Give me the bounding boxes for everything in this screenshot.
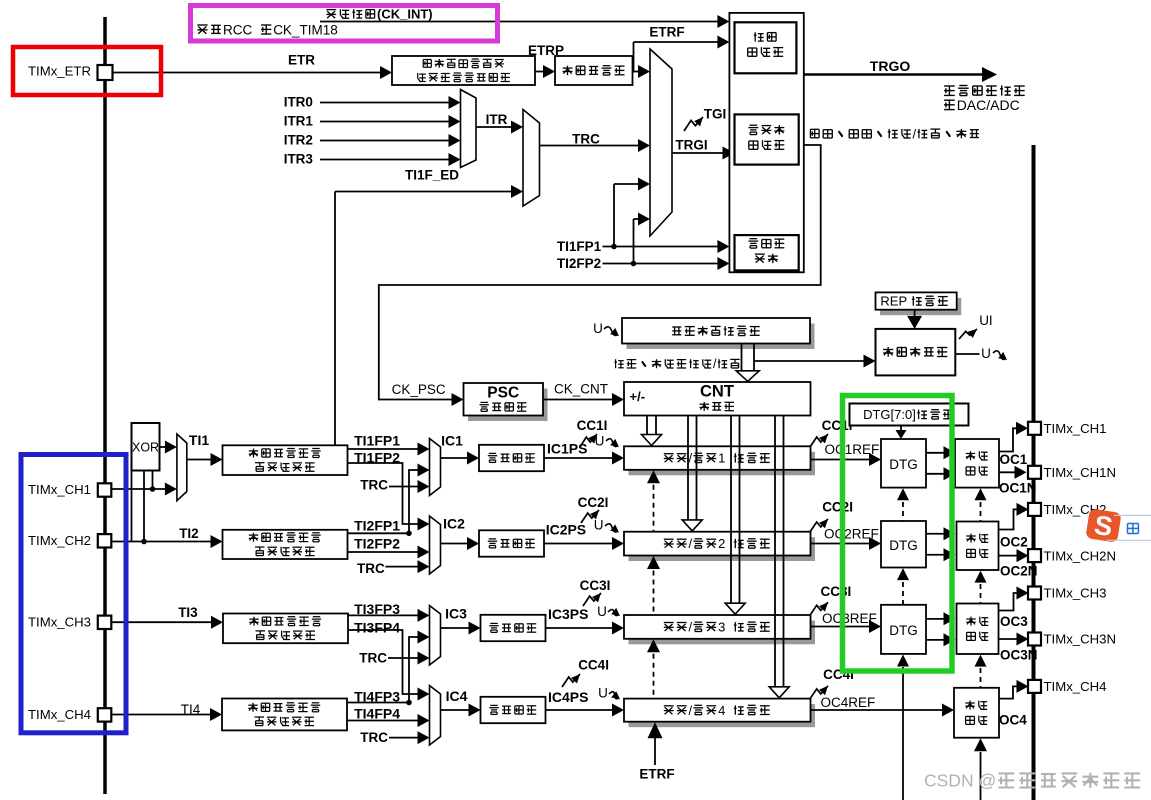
svg-text:TI2: TI2 <box>179 526 199 541</box>
svg-text:TRC: TRC <box>357 561 385 576</box>
svg-text:CK_PSC: CK_PSC <box>392 382 446 397</box>
svg-text:TRC: TRC <box>360 730 388 745</box>
svg-text:4: 4 <box>718 703 725 718</box>
svg-text:DTG: DTG <box>889 457 918 472</box>
svg-text:U: U <box>594 518 604 533</box>
svg-text:/: / <box>689 451 693 466</box>
svg-text:CSDN @: CSDN @ <box>924 771 996 791</box>
svg-text:TI4: TI4 <box>181 702 201 717</box>
svg-text:TIMx_CH2: TIMx_CH2 <box>28 533 91 548</box>
svg-text:3: 3 <box>718 620 725 635</box>
svg-text:OC4: OC4 <box>999 713 1027 728</box>
svg-text:ETRF: ETRF <box>639 766 674 781</box>
svg-text:ITR1: ITR1 <box>284 113 314 128</box>
svg-text:IC3PS: IC3PS <box>548 606 588 622</box>
svg-text:U: U <box>593 321 603 336</box>
svg-text:U: U <box>597 604 607 619</box>
svg-text:/: / <box>713 357 717 371</box>
svg-text:TRC: TRC <box>360 478 388 493</box>
svg-text:TRC: TRC <box>572 132 600 147</box>
svg-text:TI1F_ED: TI1F_ED <box>405 167 459 182</box>
svg-text:TGI: TGI <box>704 106 727 121</box>
svg-text:/: / <box>689 620 693 635</box>
svg-text:TIMx_CH2N: TIMx_CH2N <box>1044 548 1117 563</box>
svg-text:TI2FP2: TI2FP2 <box>557 256 601 271</box>
svg-text:CK_TIM18: CK_TIM18 <box>273 22 338 37</box>
svg-text:ETRF: ETRF <box>649 25 684 40</box>
svg-text:CC1I: CC1I <box>822 418 853 433</box>
svg-text:+/-: +/- <box>630 389 646 404</box>
svg-text:TIMx_CH3: TIMx_CH3 <box>1044 586 1107 601</box>
svg-text:CC3I: CC3I <box>821 584 852 599</box>
svg-text:IC1PS: IC1PS <box>547 441 587 457</box>
svg-text:OC2N: OC2N <box>1000 564 1038 579</box>
svg-text:DTG[7:0]: DTG[7:0] <box>863 407 916 422</box>
svg-text:TRGI: TRGI <box>675 138 707 153</box>
svg-text:TI2FP1: TI2FP1 <box>354 518 400 534</box>
svg-text:TIMx_CH4: TIMx_CH4 <box>28 707 91 722</box>
svg-text:ETR: ETR <box>288 52 315 67</box>
svg-text:ETRP: ETRP <box>528 43 564 58</box>
svg-text:OC4REF: OC4REF <box>821 695 876 710</box>
svg-text:TI1: TI1 <box>189 432 209 448</box>
svg-text:CNT: CNT <box>700 382 734 400</box>
svg-text:OC3N: OC3N <box>1000 648 1038 663</box>
svg-text:TIMx_CH3: TIMx_CH3 <box>28 615 91 630</box>
svg-text:OC1: OC1 <box>1000 452 1028 467</box>
svg-text:TIMx_ETR: TIMx_ETR <box>28 64 91 79</box>
svg-text:TI4FP4: TI4FP4 <box>354 706 400 722</box>
svg-text:/: / <box>689 703 693 718</box>
svg-text:DAC/ADC: DAC/ADC <box>957 97 1020 113</box>
svg-text:DTG: DTG <box>889 538 918 553</box>
svg-text:OC3: OC3 <box>1000 614 1028 629</box>
svg-text:TRC: TRC <box>359 651 387 666</box>
svg-text:REP: REP <box>880 294 907 309</box>
svg-text:IC2: IC2 <box>443 516 465 532</box>
svg-text:TIMx_CH1N: TIMx_CH1N <box>1044 465 1117 480</box>
svg-text:U: U <box>981 346 991 361</box>
svg-text:CK_CNT: CK_CNT <box>554 382 608 397</box>
svg-text:IC1: IC1 <box>441 432 463 448</box>
svg-text:UI: UI <box>979 313 993 328</box>
svg-text:ITR3: ITR3 <box>284 151 314 166</box>
svg-text:TIMx_CH3N: TIMx_CH3N <box>1044 632 1117 647</box>
svg-text:(CK_INT): (CK_INT) <box>377 7 433 22</box>
svg-text:TIMx_CH1: TIMx_CH1 <box>1044 421 1107 436</box>
svg-text:PSC: PSC <box>487 385 519 402</box>
svg-text:CC4I: CC4I <box>578 657 609 672</box>
svg-text:CC2I: CC2I <box>578 495 609 510</box>
svg-text:TI2FP2: TI2FP2 <box>354 536 400 552</box>
svg-text:1: 1 <box>718 451 725 466</box>
svg-text:TI1FP1: TI1FP1 <box>557 239 602 254</box>
svg-text:TI3: TI3 <box>178 605 198 620</box>
svg-text:IC4PS: IC4PS <box>548 689 588 705</box>
svg-text:IC3: IC3 <box>445 605 467 621</box>
svg-text:ITR0: ITR0 <box>284 94 313 109</box>
svg-text:RCC: RCC <box>223 22 252 37</box>
svg-text:/: / <box>689 536 693 551</box>
svg-text:CC2I: CC2I <box>822 500 853 515</box>
svg-text:IC4: IC4 <box>446 688 468 704</box>
svg-text:TI3FP4: TI3FP4 <box>354 619 400 635</box>
svg-text:OC2: OC2 <box>1000 534 1028 549</box>
svg-text:TRGO: TRGO <box>870 58 911 74</box>
svg-text:IC2PS: IC2PS <box>546 521 586 537</box>
svg-text:ITR: ITR <box>486 112 508 127</box>
svg-text:TIMx_CH4: TIMx_CH4 <box>1044 679 1107 694</box>
svg-text:OC1N: OC1N <box>999 480 1037 495</box>
svg-text:/: / <box>913 126 917 141</box>
svg-text:ITR2: ITR2 <box>284 132 313 147</box>
svg-text:CC1I: CC1I <box>577 418 608 433</box>
svg-text:XOR: XOR <box>132 440 159 454</box>
svg-text:OC3REF: OC3REF <box>822 611 877 626</box>
svg-text:CC3I: CC3I <box>580 578 611 593</box>
svg-text:2: 2 <box>718 536 725 551</box>
svg-text:U: U <box>598 686 608 701</box>
svg-text:DTG: DTG <box>889 623 918 638</box>
svg-text:TI1FP1: TI1FP1 <box>354 432 400 448</box>
svg-text:TIMx_CH1: TIMx_CH1 <box>28 482 91 497</box>
svg-text:U: U <box>595 433 605 448</box>
